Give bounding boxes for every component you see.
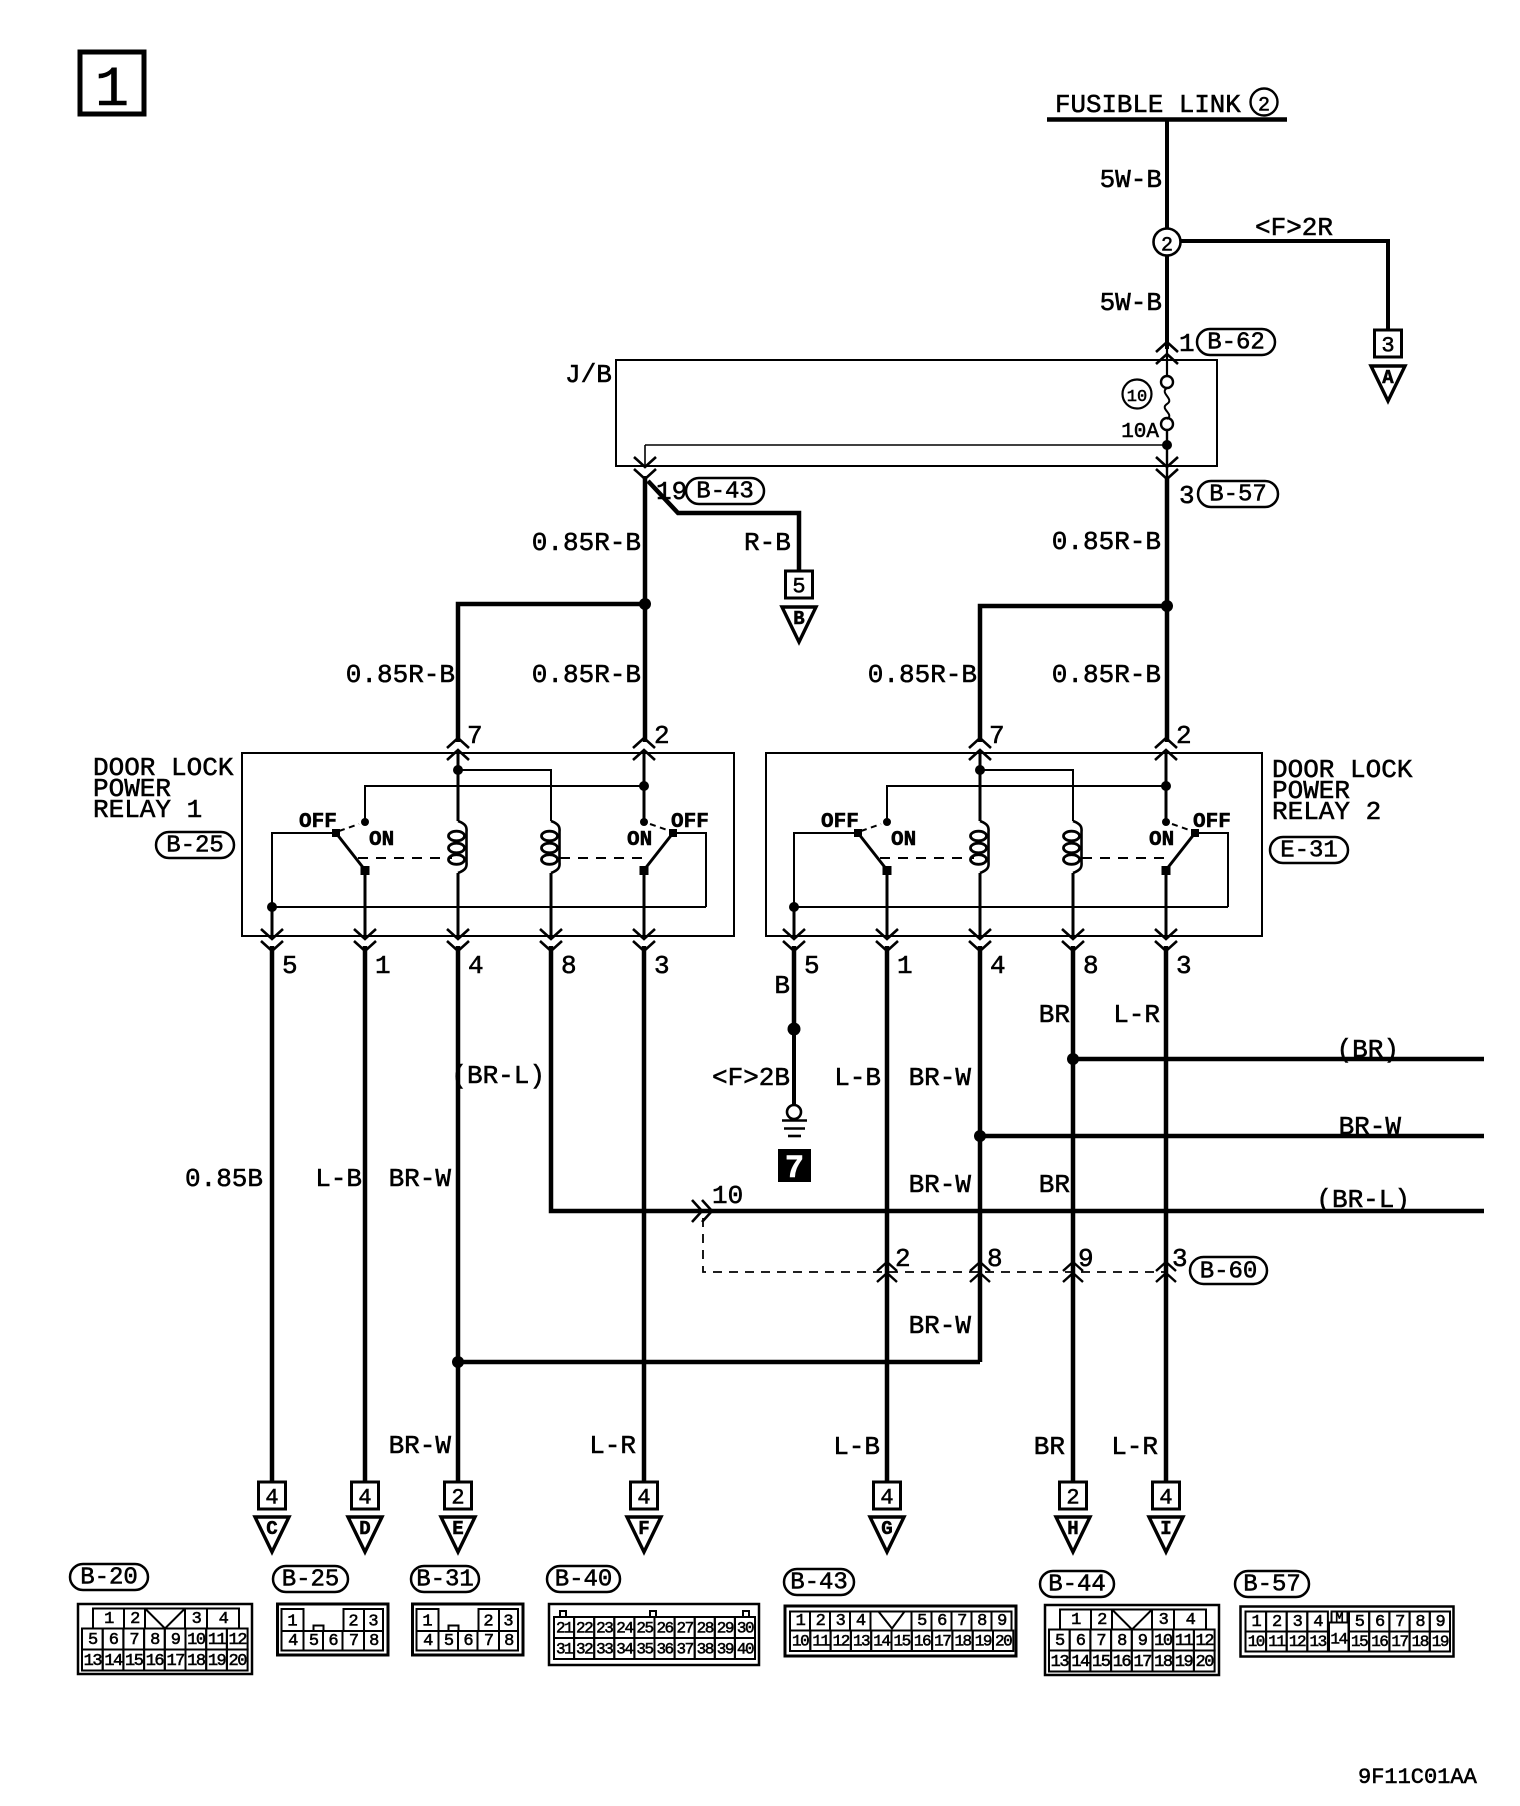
node right splice <box>1161 600 1173 612</box>
relay 1 left switch dashed throw <box>339 824 359 831</box>
svg-text:9: 9 <box>997 1612 1007 1631</box>
wire BR-W relay1 pin4 to connector E <box>456 946 461 1483</box>
relay 1 left switch arm <box>336 833 365 870</box>
svg-text:6: 6 <box>937 1612 947 1631</box>
relay 1 pin5 junction <box>267 902 277 912</box>
svg-text:39: 39 <box>717 1641 734 1659</box>
connector pin table B-43 outline <box>785 1606 1016 1656</box>
svg-text:3: 3 <box>1179 481 1195 511</box>
svg-text:2: 2 <box>130 1610 139 1629</box>
relay 1 pin7 wire and junction <box>457 753 460 821</box>
svg-text:17: 17 <box>166 1652 184 1671</box>
svg-text:4: 4 <box>219 1610 229 1629</box>
svg-text:18: 18 <box>187 1652 206 1671</box>
svg-text:1: 1 <box>897 951 913 981</box>
svg-text:4: 4 <box>468 951 484 981</box>
node ground splice <box>788 1023 801 1036</box>
relay 1 OFF bus wire <box>272 906 706 908</box>
svg-text:35: 35 <box>636 1641 653 1659</box>
svg-text:29: 29 <box>717 1620 734 1638</box>
svg-text:1: 1 <box>1071 1611 1081 1630</box>
relay 1 right switch dashed throw <box>650 824 670 831</box>
svg-text:L-B: L-B <box>834 1063 881 1093</box>
off-page triangle C <box>255 1517 289 1552</box>
svg-text:E-31: E-31 <box>1280 838 1338 865</box>
off-page triangle I <box>1149 1517 1183 1552</box>
svg-text:ON: ON <box>891 829 916 852</box>
junction block J/B box <box>616 360 1217 466</box>
connector pin table B-31 cells <box>417 1609 439 1631</box>
svg-text:3: 3 <box>1172 1244 1188 1274</box>
svg-text:B-44: B-44 <box>1048 1572 1106 1599</box>
wire 0.85R-B to relay2 pin2 <box>1165 606 1170 742</box>
svg-text:12: 12 <box>1289 1633 1306 1651</box>
svg-text:BR: BR <box>1039 1000 1070 1030</box>
svg-text:4: 4 <box>880 1486 893 1511</box>
connector label B-60 <box>1190 1257 1267 1284</box>
svg-text:6: 6 <box>1076 1632 1086 1651</box>
svg-text:8: 8 <box>987 1244 1003 1274</box>
svg-text:9F11C01AA: 9F11C01AA <box>1358 1765 1478 1790</box>
svg-text:7: 7 <box>1096 1632 1105 1651</box>
svg-text:C: C <box>266 1518 277 1540</box>
svg-text:0.85R-B: 0.85R-B <box>532 660 641 690</box>
svg-text:1: 1 <box>422 1613 432 1632</box>
svg-text:B-25: B-25 <box>282 1567 340 1594</box>
connector 10 chevrons on (BR-L) wire <box>692 1200 702 1222</box>
svg-text:(BR): (BR) <box>1337 1035 1399 1065</box>
connector pin table B-57 outline <box>1241 1607 1454 1657</box>
relay 2 pin5 wire <box>793 907 796 936</box>
wire BR relay2 pin8 to connector H <box>1071 946 1076 1483</box>
svg-text:5: 5 <box>804 951 820 981</box>
connector B-60 dashed outline <box>703 1218 1164 1272</box>
svg-text:18: 18 <box>1412 1633 1429 1651</box>
svg-text:0.85B: 0.85B <box>185 1164 263 1194</box>
svg-text:8: 8 <box>150 1631 160 1650</box>
svg-text:10A: 10A <box>1121 421 1159 444</box>
svg-text:31: 31 <box>556 1641 573 1659</box>
connector square 4 of triangle G <box>874 1482 901 1509</box>
svg-text:5: 5 <box>1055 1632 1065 1651</box>
svg-text:B-57: B-57 <box>1243 1572 1301 1599</box>
svg-text:1: 1 <box>287 1613 297 1632</box>
wire L-B relay1 pin1 to connector D <box>363 946 368 1483</box>
pin 1 connector B-62 chevrons <box>1156 342 1178 352</box>
connector label B-62 <box>1197 329 1275 355</box>
connector square 2 of triangle E <box>445 1482 472 1509</box>
svg-text:26: 26 <box>656 1620 673 1638</box>
fusible link bus bar <box>1047 117 1287 122</box>
svg-text:11: 11 <box>208 1631 227 1650</box>
pin 19 connector B-43 exit chevrons <box>634 457 656 467</box>
relay 1 right switch pivot <box>669 829 677 837</box>
svg-text:(BR-L): (BR-L) <box>451 1061 545 1091</box>
svg-text:BR-W: BR-W <box>1339 1112 1402 1142</box>
svg-text:1: 1 <box>375 951 391 981</box>
relay 1 right switch arm <box>644 833 673 870</box>
svg-text:<F>2B: <F>2B <box>712 1063 790 1093</box>
relay 2 ON contacts feed wire <box>887 786 1166 820</box>
svg-text:1: 1 <box>1179 329 1195 359</box>
connector B-60 pin 8 chevrons <box>970 1262 990 1271</box>
svg-text:40: 40 <box>737 1641 754 1659</box>
svg-text:5: 5 <box>917 1612 927 1631</box>
wire 0.85R-B left spine upper <box>643 476 648 604</box>
svg-text:14: 14 <box>1071 1653 1090 1672</box>
svg-text:1: 1 <box>796 1612 806 1631</box>
svg-text:BR-W: BR-W <box>909 1311 972 1341</box>
svg-text:L-R: L-R <box>1113 1000 1160 1030</box>
relay 2 pin4 wire <box>979 873 982 936</box>
svg-text:7: 7 <box>989 721 1005 751</box>
svg-text:BR: BR <box>1039 1170 1070 1200</box>
svg-text:F: F <box>638 1518 649 1540</box>
svg-text:2: 2 <box>895 1244 911 1274</box>
node fuse-output junction <box>1162 440 1172 450</box>
svg-text:20: 20 <box>1196 1653 1215 1672</box>
wire 0.85R-B right spine upper <box>1166 445 1168 477</box>
relay 2 pin8 wire <box>1072 873 1075 936</box>
door lock power relay 1 box <box>242 753 734 936</box>
svg-text:2: 2 <box>1272 1613 1281 1632</box>
svg-text:4: 4 <box>423 1632 433 1651</box>
svg-text:D: D <box>359 1518 370 1540</box>
wire 5W-B upper <box>1165 120 1169 229</box>
svg-text:24: 24 <box>616 1620 633 1638</box>
svg-text:12: 12 <box>833 1633 850 1651</box>
svg-text:4: 4 <box>1186 1611 1196 1630</box>
relay 2 right ON contact <box>1162 818 1170 826</box>
svg-text:2: 2 <box>451 1486 464 1511</box>
relay 1 bottom exit chevrons pins 5 1 4 8 3 <box>261 929 283 939</box>
svg-text:15: 15 <box>1351 1633 1368 1651</box>
connector pin table B-20 outline <box>78 1604 252 1674</box>
off-page triangle B <box>782 607 816 642</box>
relay 2 pin1 wire <box>886 871 889 936</box>
svg-text:E: E <box>452 1518 463 1540</box>
relay 2 right switch pivot <box>1191 829 1199 837</box>
connector pin table B-20 middle row <box>82 1629 103 1650</box>
svg-text:13: 13 <box>1309 1633 1326 1651</box>
svg-text:23: 23 <box>596 1620 613 1638</box>
relay 2 left ON contact <box>883 818 891 826</box>
svg-text:38: 38 <box>697 1641 714 1659</box>
connector pin table B-25 cells <box>282 1609 304 1631</box>
off-page triangle F <box>627 1517 661 1552</box>
svg-text:9: 9 <box>1078 1244 1094 1274</box>
svg-text:21: 21 <box>556 1620 573 1638</box>
fuse output wire to node <box>1166 430 1168 445</box>
svg-text:(BR-L): (BR-L) <box>1316 1185 1410 1215</box>
relay 1 coil 2 <box>551 821 560 873</box>
svg-text:1: 1 <box>1251 1613 1261 1632</box>
relay 1 coil feed wire <box>458 770 551 821</box>
svg-text:3: 3 <box>654 951 670 981</box>
svg-text:5: 5 <box>792 575 805 600</box>
svg-text:12: 12 <box>229 1631 247 1650</box>
node BR-W junction relay2 pin4 <box>974 1130 986 1142</box>
connector label B-20 (bottom) <box>70 1564 148 1590</box>
connector pin table B-44 outline <box>1045 1605 1219 1675</box>
svg-text:2: 2 <box>1097 1611 1106 1630</box>
svg-text:4: 4 <box>288 1632 298 1651</box>
svg-text:19: 19 <box>1175 1653 1194 1672</box>
wire BR-W relay2 pin4 <box>978 946 983 1362</box>
connector pin table B-40 outline <box>549 1604 759 1665</box>
svg-text:8: 8 <box>561 951 577 981</box>
off-page triangle A <box>1371 366 1405 401</box>
svg-text:16: 16 <box>914 1633 931 1651</box>
relay 2 OFF bus wire <box>794 906 1228 908</box>
connector pin table B-57 top row <box>1246 1612 1267 1632</box>
svg-text:3: 3 <box>1381 334 1394 359</box>
svg-text:19: 19 <box>208 1652 227 1671</box>
svg-text:OFF: OFF <box>299 811 337 834</box>
svg-text:3: 3 <box>1293 1613 1303 1632</box>
svg-text:8: 8 <box>977 1612 987 1631</box>
svg-text:B-43: B-43 <box>790 1570 848 1597</box>
svg-text:7: 7 <box>129 1631 138 1650</box>
svg-text:19: 19 <box>1432 1633 1449 1651</box>
svg-text:ON: ON <box>1149 829 1174 852</box>
relay 2 left pivot feed wire <box>794 833 858 907</box>
svg-text:2: 2 <box>348 1613 358 1632</box>
relay 1 left actuation dashed link <box>358 857 452 859</box>
svg-text:R-B: R-B <box>744 528 791 558</box>
svg-text:0.85R-B: 0.85R-B <box>1052 527 1161 557</box>
svg-text:4: 4 <box>1313 1613 1323 1632</box>
svg-text:B: B <box>774 971 790 1001</box>
svg-text:A: A <box>1382 367 1394 389</box>
svg-text:B-57: B-57 <box>1209 482 1267 509</box>
svg-text:H: H <box>1067 1518 1078 1540</box>
svg-text:RELAY 2: RELAY 2 <box>1272 797 1381 827</box>
svg-text:7: 7 <box>785 1150 804 1187</box>
relay 1 right switch moving contact <box>640 866 649 875</box>
connector square 2 of triangle H <box>1060 1482 1087 1509</box>
svg-text:28: 28 <box>697 1620 714 1638</box>
relay 2 right switch arm <box>1166 833 1195 870</box>
pin 3 connector B-57 exit chevrons <box>1156 457 1178 467</box>
svg-text:4: 4 <box>358 1486 371 1511</box>
connector pin table B-40 top row <box>554 1617 574 1638</box>
svg-text:20: 20 <box>995 1633 1012 1651</box>
relay 2 coil 1 <box>980 821 989 873</box>
svg-text:M: M <box>1335 1611 1343 1627</box>
svg-text:37: 37 <box>677 1641 694 1659</box>
svg-text:7: 7 <box>349 1632 358 1651</box>
svg-text:2: 2 <box>1066 1486 1079 1511</box>
relay 2 left switch moving contact <box>883 866 892 875</box>
svg-text:FUSIBLE LINK: FUSIBLE LINK <box>1055 91 1241 120</box>
wire R-B to triangle B <box>648 481 799 571</box>
connector label B-25 of relay 1 <box>156 832 234 858</box>
svg-text:4: 4 <box>990 951 1006 981</box>
off-page triangle D <box>348 1517 382 1552</box>
svg-text:4: 4 <box>265 1486 278 1511</box>
svg-text:4: 4 <box>1159 1486 1172 1511</box>
svg-text:15: 15 <box>894 1633 911 1651</box>
relay 2 left switch dashed throw <box>861 824 881 831</box>
svg-text:10: 10 <box>712 1181 743 1211</box>
fuse 10A element <box>1161 376 1173 388</box>
svg-text:0.85R-B: 0.85R-B <box>868 660 977 690</box>
relay 1 pin3 wire <box>643 871 646 936</box>
svg-text:16: 16 <box>146 1652 165 1671</box>
svg-text:13: 13 <box>1051 1653 1070 1672</box>
connector square 4 of triangle D <box>352 1482 379 1509</box>
svg-text:RELAY 1: RELAY 1 <box>93 795 202 825</box>
svg-text:19: 19 <box>975 1633 992 1651</box>
svg-text:3: 3 <box>1176 951 1192 981</box>
connector label B-57 (top) <box>1198 481 1278 507</box>
wire (BR) to right edge <box>1073 1057 1484 1062</box>
wire 0.85R-B to relay2 pin7 <box>980 606 1167 742</box>
svg-text:9: 9 <box>1138 1632 1148 1651</box>
relay 1 pin8 wire <box>550 873 553 936</box>
svg-text:6: 6 <box>109 1631 119 1650</box>
connector square 4 of triangle F <box>631 1482 658 1509</box>
svg-text:6: 6 <box>1375 1613 1385 1632</box>
svg-text:5W-B: 5W-B <box>1100 165 1162 195</box>
wire L-R relay1 pin3 to connector F <box>642 946 647 1483</box>
svg-text:14: 14 <box>1330 1631 1347 1649</box>
connector square 5 of triangle B <box>786 571 813 598</box>
svg-text:BR: BR <box>1034 1432 1065 1462</box>
relay 1 pin4 wire <box>457 873 460 936</box>
svg-text:L-R: L-R <box>1111 1432 1158 1462</box>
svg-text:7: 7 <box>957 1612 966 1631</box>
wire L-B relay2 pin1 to connector G <box>885 946 890 1483</box>
svg-text:8: 8 <box>504 1632 514 1651</box>
connector label B-25 (bottom) <box>273 1566 348 1592</box>
svg-text:2: 2 <box>1176 721 1192 751</box>
svg-text:3: 3 <box>836 1612 846 1631</box>
connector pin table B-40 bottom row <box>554 1638 574 1659</box>
svg-text:5W-B: 5W-B <box>1100 288 1162 318</box>
svg-text:L-B: L-B <box>315 1164 362 1194</box>
relay 2 pin3 wire <box>1165 871 1168 936</box>
connector label B-44 (bottom) <box>1040 1571 1114 1597</box>
svg-text:4: 4 <box>856 1612 866 1631</box>
wire (BR-L) relay1 pin8 to right edge <box>551 946 1484 1211</box>
relay 1 coil 1 <box>458 821 467 873</box>
svg-text:<F>2R: <F>2R <box>1255 213 1333 243</box>
ground reference black square 7 <box>778 1149 811 1182</box>
svg-text:34: 34 <box>616 1641 633 1659</box>
relay 1 left switch pivot <box>332 829 340 837</box>
svg-text:17: 17 <box>1391 1633 1408 1651</box>
svg-text:4: 4 <box>637 1486 650 1511</box>
svg-text:11: 11 <box>1175 1632 1194 1651</box>
svg-text:5: 5 <box>1355 1613 1365 1632</box>
connector pin table B-44 middle row <box>1049 1630 1070 1651</box>
relay 2 right pivot feed wire <box>1195 833 1228 907</box>
relay 1 pin 2 entry chevrons <box>633 738 655 748</box>
svg-text:3: 3 <box>503 1613 513 1632</box>
connector square 4 of triangle C <box>259 1482 286 1509</box>
wire BR-W to right edge <box>980 1134 1484 1139</box>
svg-text:1: 1 <box>95 59 129 123</box>
relay 2 right actuation dashed link <box>1082 857 1172 859</box>
svg-text:7: 7 <box>484 1632 493 1651</box>
svg-text:J/B: J/B <box>565 360 612 390</box>
svg-text:2: 2 <box>483 1613 493 1632</box>
node BR junction relay2 pin8 <box>1067 1053 1079 1065</box>
svg-text:16: 16 <box>1371 1633 1388 1651</box>
connector B-60 pin 9 chevrons <box>1063 1262 1083 1271</box>
svg-text:5: 5 <box>309 1632 319 1651</box>
ground symbol <box>787 1105 801 1119</box>
svg-text:17: 17 <box>1133 1653 1151 1672</box>
svg-text:I: I <box>1160 1518 1171 1540</box>
svg-text:11: 11 <box>1268 1633 1285 1651</box>
connector pin table B-44 top row <box>1060 1610 1091 1630</box>
svg-text:9: 9 <box>1436 1613 1446 1632</box>
node BR-W junction on relay1 pin4 wire <box>452 1356 464 1368</box>
wire 0.85B relay1 pin5 to connector C <box>270 946 275 1483</box>
svg-text:15: 15 <box>1092 1653 1111 1672</box>
svg-text:10: 10 <box>1248 1633 1265 1651</box>
svg-text:10: 10 <box>1154 1632 1173 1651</box>
relay 1 pin2 wire to ON contact <box>643 753 646 822</box>
relay 1 left ON contact <box>361 818 369 826</box>
wire 0.85R-B to relay1 pin7 <box>458 604 645 742</box>
svg-text:5: 5 <box>282 951 298 981</box>
svg-text:8: 8 <box>1117 1632 1127 1651</box>
svg-text:2: 2 <box>816 1612 825 1631</box>
connector pin table B-20 bottom row <box>82 1650 103 1671</box>
relay 1 right pivot feed wire <box>673 833 706 907</box>
wire B relay2 pin5 to ground <box>792 946 797 1029</box>
svg-text:25: 25 <box>636 1620 653 1638</box>
svg-text:0.85R-B: 0.85R-B <box>1052 660 1161 690</box>
relay 1 right ON contact <box>640 818 648 826</box>
connector square 3 of triangle A <box>1375 330 1402 357</box>
svg-text:10: 10 <box>187 1631 206 1650</box>
connector B-60 pin 2 chevrons <box>877 1262 897 1271</box>
svg-text:11: 11 <box>812 1633 829 1651</box>
svg-text:B-20: B-20 <box>80 1565 138 1592</box>
svg-text:10: 10 <box>792 1633 809 1651</box>
relay 2 coil 2 <box>1073 821 1082 873</box>
connector label B-57 (bottom) <box>1235 1571 1309 1597</box>
off-page triangle G <box>870 1517 904 1552</box>
svg-text:17: 17 <box>934 1633 951 1651</box>
connector pin table B-25 outline <box>278 1604 389 1655</box>
relay 1 ON contacts feed wire <box>365 786 644 820</box>
svg-text:BR-W: BR-W <box>909 1170 972 1200</box>
wire 5W-B lower <box>1165 255 1169 349</box>
relay 1 pin1 wire <box>364 871 367 936</box>
relay 2 right switch moving contact <box>1162 866 1171 875</box>
svg-text:2: 2 <box>654 721 670 751</box>
relay 1 right actuation dashed link <box>560 857 650 859</box>
svg-text:13: 13 <box>853 1633 870 1651</box>
svg-text:1: 1 <box>104 1610 114 1629</box>
svg-text:0.85R-B: 0.85R-B <box>532 528 641 558</box>
svg-text:30: 30 <box>737 1620 754 1638</box>
svg-text:12: 12 <box>1196 1632 1214 1651</box>
connector pin table B-20 top row <box>93 1609 124 1629</box>
wire (F)2R branch <box>1181 241 1389 330</box>
connector pin table B-44 bottom row <box>1049 1651 1070 1672</box>
svg-text:ON: ON <box>369 829 394 852</box>
svg-text:16: 16 <box>1113 1653 1132 1672</box>
svg-text:B-62: B-62 <box>1207 330 1265 357</box>
svg-text:15: 15 <box>125 1652 144 1671</box>
